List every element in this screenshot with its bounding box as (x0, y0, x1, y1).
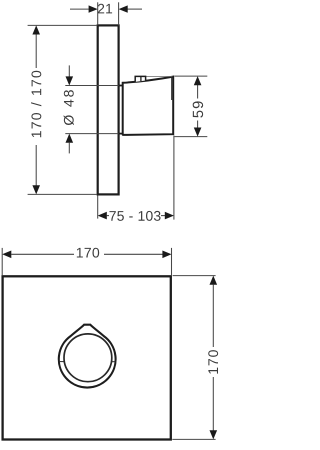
dimension 21 tail left (70, 8, 89, 10)
dimension 21 tail right (128, 8, 143, 10)
hub bottom edge (119, 133, 123, 135)
handle rear top edge (thin) (146, 75, 173, 77)
handle button divider (140, 76, 142, 81)
escutcheon plate (side view) (98, 25, 119, 194)
dimension Ø48 arrow bottom (points up) (66, 134, 74, 143)
front view dimension 170 right: arrow bottom (210, 430, 218, 439)
dimension 170/170 arrow bottom (32, 185, 40, 194)
front view dimension 170 top: line right segment (104, 253, 163, 255)
dimension Ø48 arrow top (points down) (66, 76, 74, 85)
front view dimension 170 top: label (77, 248, 99, 258)
dimension Ø48 label (64, 90, 74, 125)
dimension 75-103 arrow right (165, 212, 174, 220)
front view dimension 170 right: extension line top (173, 275, 216, 277)
dimension 170/170 label (31, 71, 41, 137)
front view dimension 170 right: line upper segment (212, 284, 214, 347)
dimension 75-103 extension line left (97, 196, 99, 219)
dimension 75-103 label (109, 211, 160, 221)
dimension 59 line upper segment (197, 85, 199, 99)
parting tick right (112, 361, 116, 363)
dimension 59 arrow top (194, 76, 202, 85)
dimension 59 extension line bottom (175, 136, 208, 138)
dimension Ø48 tail bottom (68, 143, 70, 154)
dimension 59 label (193, 101, 203, 117)
dimension 75-103 extension line right (173, 136, 175, 220)
dimension 21 arrow right (119, 5, 128, 12)
front view dimension 170 top: extension line right (171, 248, 173, 275)
front view dimension 170 top: extension line left (1, 248, 3, 275)
dimension 75-103 arrow left (98, 212, 107, 220)
dimension 75-103 line left segment (107, 215, 110, 217)
escutcheon plate (front view) (3, 276, 171, 439)
parting tick left (59, 361, 65, 363)
dimension 170/170 extension line top (28, 24, 97, 26)
front view dimension 170 top: line left segment (11, 253, 74, 255)
handle knob outline (side view) (123, 77, 174, 135)
hub top edge (119, 85, 123, 87)
dimension 21 label (98, 4, 112, 14)
front view dimension 170 right: line lower segment (212, 377, 214, 431)
dimension 170/170 line upper segment (35, 33, 37, 68)
dimension 59 extension line top (175, 75, 208, 77)
handle teardrop outer contour (front view) (59, 325, 116, 388)
front view dimension 170 right: extension line bottom (172, 438, 215, 440)
dimension Ø48 extension line bottom (crosses plate) (65, 133, 118, 135)
dimension 59 line lower segment (197, 121, 199, 129)
dimension 170/170 arrow top (32, 25, 40, 34)
dimension 21 arrow left (89, 5, 98, 12)
front view dimension 170 top: arrow right (162, 251, 171, 259)
handle inner front-face line (171, 77, 173, 100)
dimension Ø48 extension line top (crosses plate) (65, 85, 118, 87)
dimension Ø48 tail top (68, 65, 70, 76)
dimension 21 extension line left (97, 2, 99, 25)
dimension 170/170 extension line bottom (28, 193, 97, 195)
dimension 170/170 line lower segment (35, 145, 37, 187)
handle hub inner circle (front view) (64, 334, 112, 382)
handle button (135, 76, 145, 82)
front view dimension 170 right: label (208, 350, 218, 374)
front view dimension 170 right: arrow top (210, 276, 218, 285)
dimension 75-103 line right segment (161, 215, 165, 217)
front view dimension 170 top: arrow left (2, 251, 11, 259)
dimension 59 arrow bottom (194, 128, 202, 137)
dimension 21 extension line right (118, 2, 120, 25)
